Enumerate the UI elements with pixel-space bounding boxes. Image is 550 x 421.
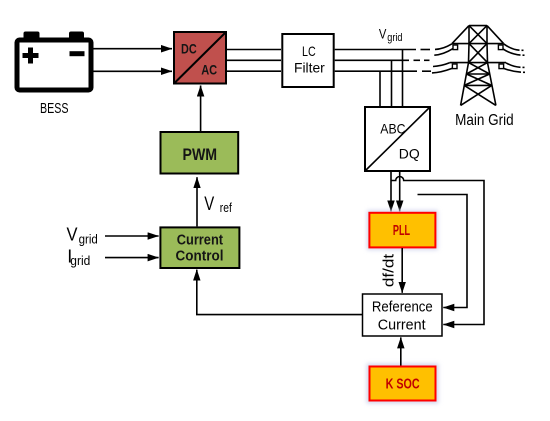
tower top bar [469,25,487,27]
wire battery to DC/AC (upper) [94,48,173,50]
svg-text:ref: ref [220,200,232,215]
tower mid X brace [469,44,488,63]
svg-text:Control: Control [176,248,224,264]
svg-text:Current: Current [177,233,224,249]
svg-text:Reference: Reference [372,299,433,316]
svg-text:DC: DC [181,41,197,57]
svg-text:grid: grid [70,253,90,268]
tower lower crossarm [450,62,506,64]
svg-text:PLL: PLL [393,223,410,239]
battery BESS terminals [24,32,40,41]
feedback wire to Reference Current (inner) [418,195,468,308]
wires ABC/DQ to PLL (two arrows) [390,172,392,212]
arrow K SOC to Reference Current [400,337,402,365]
svg-text:V: V [67,225,78,245]
block PWM [161,132,239,174]
conductor wires left lower [433,63,450,67]
tap wires down to ABC/DQ [402,50,404,107]
3-phase wires LC filter to grid (with dashes) [335,49,416,51]
svg-text:DQ: DQ [399,146,420,162]
svg-text:V: V [204,194,214,215]
conductor wires right lower [506,63,521,68]
insulator squares [452,45,503,69]
svg-text:AC: AC [201,61,217,77]
svg-text:LC: LC [302,43,316,59]
conductor wires left upper [432,44,525,73]
feedback wire with hop to Reference Current (outer) [391,177,484,325]
battery BESS body [17,40,91,90]
arrow PLL to Reference Current [401,248,403,293]
svg-text:BESS: BESS [40,101,69,117]
arrow I_grid into Current Control [105,257,159,259]
svg-text:Filter: Filter [294,59,325,75]
transmission tower (Main Grid pylon) [450,26,506,106]
3-phase wires DC/AC to LC filter [227,49,281,51]
right end dashes [522,49,524,51]
block ABC/DQ [365,107,430,171]
tower upper X brace [469,26,487,44]
tower roof right [487,26,504,44]
tower upper body verticals [468,26,470,44]
tower upper crossarm [452,43,504,45]
svg-text:K SOC: K SOC [386,377,420,393]
svg-text:grid: grid [387,32,402,44]
svg-text:V: V [379,26,387,42]
wire Reference Current to Current Control [197,270,362,315]
arrow PWM to DC/AC [200,86,202,132]
arrow V_grid into Current Control [105,235,159,237]
block Reference Current [363,294,443,336]
block K SOC [367,364,439,404]
tower roof left [452,26,469,44]
svg-text:df/dt: df/dt [381,253,398,287]
arrow Current Control to PWM [196,177,198,226]
battery minus symbol [70,51,85,56]
tower mid body verticals [468,44,471,63]
svg-text:ABC: ABC [380,121,405,137]
svg-text:PWM: PWM [183,145,218,164]
block PLL [367,210,438,250]
block Current Control [160,227,239,268]
conductor wires right upper [504,44,520,50]
block LC Filter [282,34,333,87]
tower leg X braces [469,63,490,74]
svg-text:Main Grid: Main Grid [455,112,514,129]
svg-text:Current: Current [378,316,427,333]
battery plus symbol [23,48,39,64]
wire battery to DC/AC (lower) [94,70,173,72]
converter block DC/AC [174,32,226,84]
tower legs [461,63,469,106]
svg-text:grid: grid [79,232,98,247]
